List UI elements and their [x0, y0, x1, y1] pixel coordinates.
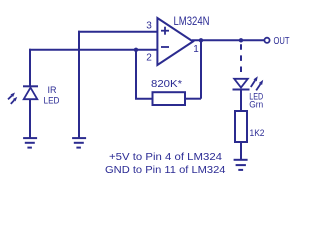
svg-text:1K2: 1K2 [250, 128, 265, 139]
svg-text:+5V to Pin 4 of LM324: +5V to Pin 4 of LM324 [109, 152, 222, 163]
svg-text:1: 1 [193, 44, 199, 55]
svg-text:820K*: 820K* [151, 79, 182, 90]
ground GND3 [234, 160, 248, 170]
svg-text:3: 3 [146, 21, 152, 32]
ground GND2 [72, 138, 86, 148]
label IR LED [44, 85, 60, 106]
OUT terminal circle [264, 38, 269, 43]
svg-text:GND to Pin 11 of LM324: GND to Pin 11 of LM324 [105, 165, 226, 176]
resistor R2 1K2 [235, 111, 247, 142]
IR light arrows [8, 93, 17, 104]
label LED Grn [249, 91, 263, 109]
LED D2 green [233, 79, 250, 111]
wire to ground [240, 142, 242, 160]
svg-text:Grn: Grn [249, 100, 263, 110]
node LED branch junction [239, 38, 243, 42]
svg-text:OUT: OUT [274, 35, 290, 47]
svg-text:IR: IR [48, 85, 58, 95]
svg-text:LED: LED [44, 95, 60, 105]
node feedback junction [134, 48, 138, 52]
wire pin3 horizontal [78, 31, 158, 33]
op-amp U1 LM324N [157, 18, 193, 65]
wire vertical to ground from pin3 [78, 31, 80, 139]
wire output [192, 39, 264, 41]
LED light arrows [251, 76, 263, 90]
wire pin2 horizontal [29, 49, 158, 51]
wire feedback left lead [135, 98, 153, 100]
wire feedback right lead [185, 98, 201, 100]
node output junction [199, 38, 203, 42]
wire vertical to IR LED [29, 49, 31, 86]
svg-text:2: 2 [146, 53, 152, 64]
ground GND1 [23, 138, 37, 148]
IR LED D1 [23, 86, 38, 138]
svg-text:LM324N: LM324N [174, 14, 210, 28]
wire feedback right vertical [200, 40, 202, 98]
wire feedback left vertical [135, 50, 137, 99]
wire dashed branch [240, 44, 242, 72]
resistor R1 820K [153, 92, 186, 105]
